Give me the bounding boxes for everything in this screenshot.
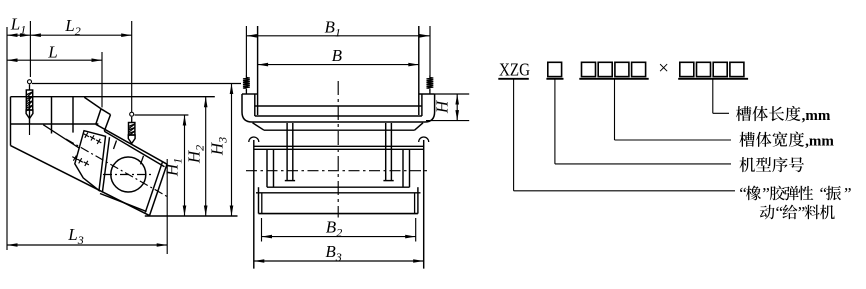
svg-text:B3: B3 xyxy=(325,242,341,264)
svg-text:,mm: ,mm xyxy=(802,108,831,124)
svg-text:”: ” xyxy=(798,203,806,222)
svg-text:”: ” xyxy=(844,184,852,203)
svg-text:“: “ xyxy=(776,203,784,222)
svg-text:,mm: ,mm xyxy=(805,134,834,150)
svg-text:B1: B1 xyxy=(325,18,341,40)
svg-text:XZG: XZG xyxy=(499,60,530,80)
svg-text:H: H xyxy=(433,99,452,114)
svg-text:×: × xyxy=(658,58,669,79)
svg-text:L: L xyxy=(47,43,57,62)
svg-text:“: “ xyxy=(820,184,828,203)
svg-text:L1: L1 xyxy=(10,15,26,37)
svg-text:“: “ xyxy=(739,184,747,203)
svg-text:B: B xyxy=(332,46,343,65)
svg-text:”: ” xyxy=(762,184,770,203)
svg-text:L2: L2 xyxy=(64,16,80,38)
svg-text:B2: B2 xyxy=(326,218,342,240)
svg-text:L3: L3 xyxy=(67,225,83,247)
svg-text:H2: H2 xyxy=(185,145,207,164)
svg-text:H3: H3 xyxy=(208,137,230,156)
